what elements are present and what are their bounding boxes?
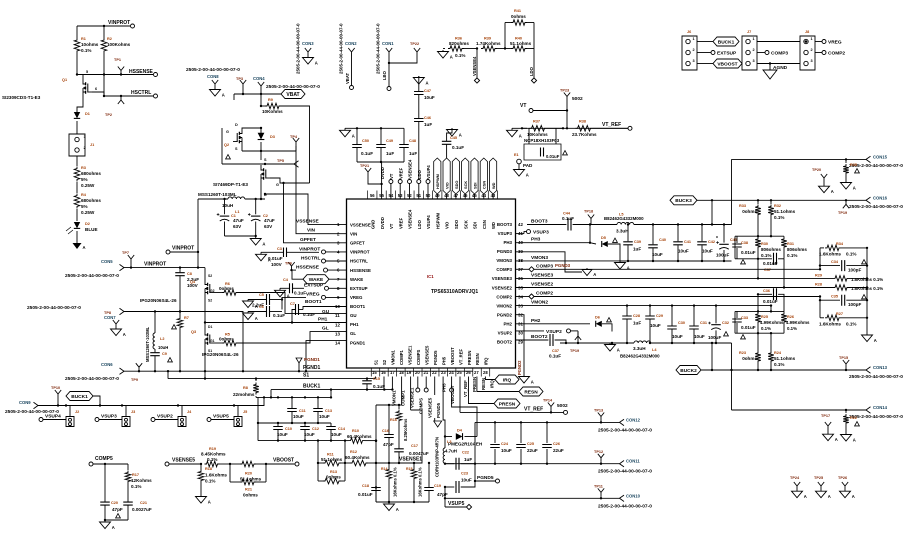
svg-text:BUCK1: BUCK1	[303, 383, 320, 389]
node VINPROT pin4	[299, 246, 347, 254]
svg-text:CON14: CON14	[873, 405, 888, 410]
svg-text:51.1ohms: 51.1ohms	[510, 41, 532, 46]
svg-text:R36: R36	[455, 37, 462, 41]
svg-text:VMON1: VMON1	[392, 390, 397, 406]
svg-text:PGND5: PGND5	[477, 475, 494, 481]
svg-text:CON13: CON13	[873, 365, 888, 370]
capacitor C21	[123, 501, 152, 521]
svg-text:R31: R31	[787, 242, 794, 246]
capacitor C5	[243, 293, 283, 309]
svg-text:0ohms: 0ohms	[742, 209, 757, 214]
svg-text:5%: 5%	[81, 204, 88, 209]
svg-text:C45: C45	[450, 136, 457, 140]
resistor R2	[101, 25, 130, 96]
wire Q4 drain stub	[204, 268, 206, 280]
svg-text:C47: C47	[424, 89, 431, 93]
svg-text:IC1: IC1	[427, 274, 434, 279]
wire S2 pin16	[381, 370, 386, 389]
inductor L5	[590, 213, 732, 234]
connector CON16	[849, 195, 903, 210]
wire Q2 drain to L1	[260, 183, 262, 200]
svg-text:22uF: 22uF	[553, 448, 564, 453]
svg-text:A: A	[222, 93, 225, 98]
connector CON12	[598, 417, 652, 433]
ground VSENSE1 block	[376, 501, 429, 512]
svg-text:A: A	[804, 494, 807, 499]
svg-text:TP21: TP21	[360, 164, 369, 168]
resistor R23	[739, 333, 761, 370]
svg-text:PRESN: PRESN	[472, 377, 477, 392]
svg-text:A: A	[255, 316, 258, 321]
svg-text:VINPROT: VINPROT	[299, 246, 320, 252]
wire Q3 source	[204, 348, 206, 379]
svg-text:R21: R21	[245, 488, 252, 492]
svg-text:J8: J8	[805, 30, 809, 34]
svg-text:SDO: SDO	[454, 181, 459, 189]
svg-text:1: 1	[84, 135, 86, 139]
svg-text:BLUE: BLUE	[85, 227, 98, 232]
svg-text:A: A	[526, 173, 529, 178]
svg-text:R40: R40	[515, 37, 522, 41]
svg-text:15: 15	[372, 370, 377, 375]
svg-text:10uF: 10uF	[461, 478, 472, 483]
wire VINPROT rail	[197, 199, 199, 269]
resistor R26	[781, 311, 810, 333]
text PGND3	[555, 263, 571, 268]
node VSENSE5 pin21	[424, 370, 433, 418]
svg-text:COMP3: COMP3	[536, 263, 553, 269]
svg-text:G1: G1	[210, 339, 215, 343]
svg-text:C28: C28	[633, 314, 640, 318]
svg-text:D1: D1	[85, 112, 90, 116]
svg-text:A: A	[593, 272, 596, 277]
node DVDD label	[380, 167, 385, 179]
svg-text:0.1uF: 0.1uF	[273, 313, 285, 318]
svg-text:VSENSE4: VSENSE4	[472, 56, 477, 76]
svg-text:IRQ: IRQ	[484, 357, 489, 365]
wire CON14 vert	[731, 370, 733, 410]
node COMPS pin20	[415, 370, 423, 414]
svg-text:PRESN: PRESN	[499, 401, 516, 407]
svg-text:47pF: 47pF	[383, 442, 394, 447]
resistor R29	[815, 273, 883, 282]
svg-text:C23: C23	[461, 472, 468, 476]
svg-text:S2: S2	[382, 359, 387, 365]
svg-text:C33: C33	[741, 316, 748, 320]
svg-text:R24: R24	[774, 351, 782, 355]
svg-text:R10: R10	[352, 429, 359, 433]
svg-text:A: A	[208, 500, 211, 505]
test point TP19	[570, 332, 581, 353]
svg-text:A: A	[617, 348, 620, 353]
connector J4 VSUP2	[151, 406, 192, 427]
resistor R17	[125, 464, 152, 501]
svg-text:C49: C49	[386, 139, 393, 143]
svg-text:CON9: CON9	[19, 400, 31, 405]
svg-text:HSCTRL: HSCTRL	[301, 255, 321, 261]
svg-text:3: 3	[753, 59, 755, 63]
svg-text:DVDD: DVDD	[380, 167, 385, 179]
svg-text:TP4: TP4	[290, 135, 298, 139]
svg-text:5002: 5002	[572, 96, 583, 102]
svg-text:VSUP4: VSUP4	[426, 215, 431, 229]
transistor Q2 SI7469DP	[213, 157, 279, 197]
svg-text:16: 16	[381, 370, 386, 375]
op-amp IC1 body	[347, 199, 516, 368]
svg-text:0.01uF: 0.01uF	[741, 325, 756, 330]
net label BUCK1	[66, 392, 100, 406]
svg-text:COMPS: COMPS	[416, 349, 421, 365]
wire column x376	[375, 405, 377, 502]
svg-text:1: 1	[753, 37, 755, 41]
capacitor C12	[300, 423, 319, 441]
connector CON9	[5, 400, 59, 415]
svg-text:L3: L3	[447, 440, 451, 444]
svg-text:A: A	[450, 55, 453, 60]
svg-text:VBAT: VBAT	[345, 72, 350, 84]
resistor R30	[755, 237, 781, 259]
svg-text:22mohms: 22mohms	[233, 392, 255, 397]
svg-text:1.74Kohms: 1.74Kohms	[476, 41, 501, 46]
svg-text:CON3: CON3	[302, 41, 314, 46]
wire R31 tap	[783, 259, 785, 289]
svg-text:CON6: CON6	[101, 362, 113, 367]
wire VMON1 pin17	[390, 370, 397, 406]
svg-text:TP12: TP12	[594, 450, 603, 454]
transistor Q1	[2, 70, 104, 100]
svg-text:VSSENSE: VSSENSE	[296, 219, 319, 225]
svg-text:2505-2-00-44-00-00-07-0: 2505-2-00-44-00-00-07-0	[598, 469, 652, 475]
svg-text:8.45Kohms: 8.45Kohms	[201, 452, 226, 457]
svg-text:10uF: 10uF	[331, 432, 342, 437]
resistor R13	[318, 463, 345, 484]
svg-text:VT_REF: VT_REF	[458, 349, 463, 365]
svg-text:A: A	[531, 380, 534, 385]
svg-text:VIO: VIO	[445, 182, 450, 189]
svg-text:60.4Kohms: 60.4Kohms	[345, 455, 370, 460]
IC1 top pin names	[371, 209, 497, 229]
ground cap trio	[340, 127, 405, 138]
capacitor C49	[376, 128, 394, 162]
svg-text:16Kohms 0.1%: 16Kohms 0.1%	[393, 467, 398, 497]
svg-text:1.6Kohms: 1.6Kohms	[205, 473, 227, 478]
svg-text:24: 24	[449, 370, 454, 375]
svg-text:BOOT2: BOOT2	[531, 334, 548, 340]
transistor Q3	[191, 325, 239, 357]
svg-text:PH5: PH5	[441, 356, 446, 365]
wire phase node	[204, 298, 206, 331]
wire VSENSE1 row	[376, 377, 422, 464]
svg-text:2: 2	[753, 48, 755, 52]
wire CON16 row	[697, 199, 866, 201]
resistor R11	[317, 453, 346, 466]
svg-text:680ohms: 680ohms	[81, 198, 101, 203]
IC1 refdes	[427, 274, 478, 295]
svg-text:GL: GL	[322, 326, 329, 332]
svg-text:14: 14	[335, 341, 340, 346]
svg-text:VSENSE3: VSENSE3	[492, 276, 513, 281]
svg-text:VT_REF: VT_REF	[463, 380, 468, 397]
svg-text:C32: C32	[722, 321, 729, 325]
net label WD hex	[490, 158, 497, 199]
capacitor C41	[673, 223, 691, 261]
svg-text:VINPROT: VINPROT	[172, 246, 194, 252]
svg-text:COMP5: COMP5	[95, 456, 113, 462]
svg-text:17: 17	[390, 370, 395, 375]
svg-text:0.1%: 0.1%	[846, 322, 856, 327]
svg-text:PGND3: PGND3	[497, 249, 513, 254]
svg-text:COMP2: COMP2	[496, 294, 512, 299]
connector CON14	[849, 405, 903, 420]
svg-text:C26: C26	[553, 442, 560, 446]
svg-text:0ohms: 0ohms	[219, 286, 234, 291]
svg-text:0.1uF: 0.1uF	[562, 216, 574, 221]
svg-text:VBOOST: VBOOST	[273, 458, 294, 464]
svg-text:BOOT1: BOOT1	[350, 304, 366, 309]
capacitor C35	[819, 295, 868, 308]
svg-text:TP2: TP2	[105, 113, 112, 117]
svg-text:0.1%: 0.1%	[787, 253, 797, 258]
svg-text:R26: R26	[787, 315, 794, 319]
svg-text:C29: C29	[656, 314, 663, 318]
capacitor C42	[697, 223, 718, 261]
svg-text:GPFET: GPFET	[300, 237, 316, 243]
IC1 top pin numbers	[368, 191, 498, 199]
svg-text:1uF: 1uF	[386, 151, 394, 156]
net label PRESN pin26	[466, 370, 520, 408]
svg-text:C21: C21	[140, 501, 147, 505]
svg-text:TP8: TP8	[104, 311, 111, 315]
svg-text:3.3uH: 3.3uH	[616, 229, 629, 234]
svg-text:C12: C12	[312, 427, 319, 431]
svg-text:COMP2: COMP2	[536, 291, 553, 297]
ground PGND1 label	[296, 357, 320, 372]
node HSSENSE pin6	[285, 262, 347, 273]
svg-text:VMON3: VMON3	[496, 258, 512, 263]
wire VT_REF pin25	[457, 370, 468, 412]
capacitor C23	[444, 464, 476, 493]
svg-text:26: 26	[466, 370, 471, 375]
wire PH1 pin12	[205, 317, 347, 328]
svg-text:C14: C14	[338, 427, 346, 431]
svg-text:COMPS: COMPS	[418, 398, 423, 414]
svg-text:R12: R12	[350, 450, 357, 454]
wire CON12 row	[475, 421, 620, 464]
svg-text:C3: C3	[277, 247, 282, 251]
svg-text:A: A	[315, 61, 318, 66]
capacitor C50	[352, 128, 373, 162]
svg-text:S2: S2	[208, 274, 212, 278]
svg-text:VT: VT	[389, 173, 394, 179]
svg-text:DVDD: DVDD	[380, 217, 385, 229]
svg-text:TP3: TP3	[236, 77, 243, 81]
svg-text:22: 22	[432, 370, 437, 375]
svg-text:10uF: 10uF	[694, 334, 705, 339]
capacitor C4 EXTSUP pin8	[275, 278, 347, 298]
svg-text:PH1: PH1	[350, 322, 359, 327]
svg-text:0.1%: 0.1%	[205, 479, 215, 484]
wire VSSENSE pin1	[264, 193, 347, 227]
svg-text:VIN: VIN	[350, 231, 357, 236]
capacitor C26	[542, 422, 564, 463]
svg-text:0.0047uF: 0.0047uF	[409, 451, 429, 456]
connector J8	[800, 30, 815, 70]
svg-text:HSCTRL: HSCTRL	[350, 259, 368, 264]
svg-text:VSUP3: VSUP3	[101, 414, 117, 420]
resistor R22	[841, 410, 860, 443]
node VSUP5 terminal	[445, 501, 472, 510]
svg-text:100Kohms: 100Kohms	[107, 42, 131, 47]
svg-text:0.1uF: 0.1uF	[303, 312, 315, 317]
svg-text:C40: C40	[659, 238, 666, 242]
ground VT row	[507, 128, 522, 138]
test point TP21	[360, 164, 383, 185]
svg-text:COMP3: COMP3	[771, 51, 788, 57]
wire fb box top rail	[735, 235, 784, 259]
svg-text:Q2: Q2	[224, 143, 229, 147]
svg-text:TP5: TP5	[277, 159, 284, 163]
node VINPROT terminal top-left	[77, 20, 135, 28]
svg-text:C37: C37	[552, 349, 559, 353]
svg-text:TP22: TP22	[410, 42, 419, 46]
svg-text:R19: R19	[209, 447, 216, 451]
svg-text:0.1%: 0.1%	[774, 215, 784, 220]
svg-text:19: 19	[407, 370, 412, 375]
svg-text:A: A	[627, 266, 630, 271]
svg-text:E1: E1	[514, 153, 519, 157]
svg-text:10Kohms: 10Kohms	[527, 132, 548, 137]
resistor R34	[819, 242, 868, 257]
svg-text:C10: C10	[285, 427, 292, 431]
svg-text:VMON2: VMON2	[531, 300, 548, 306]
svg-text:HSSENSE: HSSENSE	[350, 268, 371, 273]
resistor R25	[755, 311, 784, 333]
wire VBAT down	[260, 94, 262, 107]
svg-text:4.99Kohms: 4.99Kohms	[760, 320, 784, 325]
svg-text:VT: VT	[520, 103, 526, 109]
svg-text:0.01uF: 0.01uF	[268, 256, 283, 261]
svg-text:L2: L2	[160, 337, 164, 341]
svg-text:PGND1: PGND1	[350, 340, 366, 345]
resistor R41	[505, 9, 534, 49]
svg-text:PMEG2R10AEH: PMEG2R10AEH	[448, 442, 483, 447]
svg-text:10uF: 10uF	[304, 432, 315, 437]
net label CSN hex	[480, 158, 487, 199]
node VINPROT terminal mid	[166, 246, 198, 255]
test point TP14	[543, 399, 568, 413]
node HSCTRL	[103, 90, 158, 98]
svg-text:C30: C30	[678, 321, 685, 325]
text CON6 partnum	[65, 376, 119, 382]
node VT_REF top	[600, 122, 632, 130]
svg-text:806ohms: 806ohms	[787, 247, 807, 252]
svg-text:1.6Kohms: 1.6Kohms	[819, 252, 841, 257]
svg-text:VINPROT: VINPROT	[144, 261, 166, 267]
svg-text:VSSENSE: VSSENSE	[350, 222, 371, 227]
svg-text:C5: C5	[259, 293, 264, 297]
wire VBOOST pin24	[449, 370, 477, 436]
resistor R10	[345, 429, 377, 443]
svg-text:VINPROT: VINPROT	[108, 20, 130, 26]
svg-text:5%: 5%	[81, 177, 88, 182]
svg-text:C50: C50	[362, 139, 369, 143]
node LDO mid	[529, 49, 537, 84]
test point TP12	[594, 450, 604, 464]
svg-text:IRQ: IRQ	[503, 377, 512, 383]
resistor R18	[196, 464, 228, 505]
svg-text:MSS1260T-103ML: MSS1260T-103ML	[145, 326, 150, 362]
text CON5 partnum	[65, 273, 119, 279]
svg-text:VIN: VIN	[307, 228, 316, 234]
svg-text:A: A	[874, 338, 877, 343]
svg-text:2505-2-00-44-00-00-07-0: 2505-2-00-44-00-00-07-0	[849, 374, 903, 380]
node COMP3 J7	[757, 51, 788, 57]
capacitor C19	[424, 462, 448, 502]
svg-text:D: D	[235, 123, 238, 127]
svg-text:A: A	[396, 507, 399, 512]
svg-text:1uF: 1uF	[424, 122, 432, 127]
capacitor C8	[175, 268, 199, 312]
resistor R16	[390, 405, 408, 449]
svg-text:VT_REF: VT_REF	[524, 406, 543, 412]
net label VBOOST J6	[697, 59, 742, 68]
svg-text:C39: C39	[634, 240, 641, 244]
LED D2	[66, 222, 98, 240]
connector CON5	[101, 259, 205, 271]
svg-text:A: A	[835, 437, 838, 442]
svg-text:60.4Kohms: 60.4Kohms	[347, 434, 372, 439]
wire VIN pin2	[296, 146, 347, 236]
svg-text:J7: J7	[747, 30, 751, 34]
wire R30 tap	[757, 259, 759, 280]
node COMP2 J8	[815, 51, 845, 57]
resistor R8	[233, 379, 259, 398]
svg-text:16Kohms 0.1%: 16Kohms 0.1%	[418, 467, 423, 497]
svg-text:VINPROT: VINPROT	[350, 250, 370, 255]
diode D4	[444, 429, 483, 447]
net label HSPWM hex	[434, 158, 441, 199]
svg-text:PGND1: PGND1	[304, 357, 320, 362]
svg-text:0.1uF: 0.1uF	[373, 384, 385, 389]
svg-text:VSUP4: VSUP4	[45, 414, 61, 420]
svg-text:CON11: CON11	[626, 459, 640, 464]
text CON8 partnum	[186, 67, 240, 73]
test point TP9	[131, 363, 142, 382]
svg-text:R13: R13	[330, 470, 337, 474]
svg-text:CON4: CON4	[253, 76, 265, 81]
capacitor C47 LDO	[413, 76, 435, 119]
svg-text:CSN: CSN	[482, 181, 487, 189]
connector CON6	[101, 362, 124, 374]
inductor L2	[145, 312, 168, 363]
svg-text:TP20: TP20	[812, 168, 821, 172]
svg-text:D1: D1	[208, 325, 212, 329]
svg-text:PGND2: PGND2	[497, 313, 513, 318]
wire VSUP row	[38, 396, 265, 407]
capacitor C22	[444, 451, 476, 470]
capacitor C14	[326, 423, 346, 441]
svg-text:CON1: CON1	[382, 41, 394, 46]
wire PH2 pin31	[516, 318, 590, 324]
wire comp2 vert	[819, 295, 821, 318]
text CON4 partnum	[266, 84, 320, 90]
svg-text:A: A	[459, 133, 462, 138]
transistor Q4	[140, 274, 214, 303]
node VSENSE4 mid	[472, 49, 480, 84]
svg-text:VSENSE5: VSENSE5	[424, 345, 429, 365]
svg-text:42: 42	[518, 222, 523, 227]
svg-text:VSUP5: VSUP5	[448, 501, 465, 507]
